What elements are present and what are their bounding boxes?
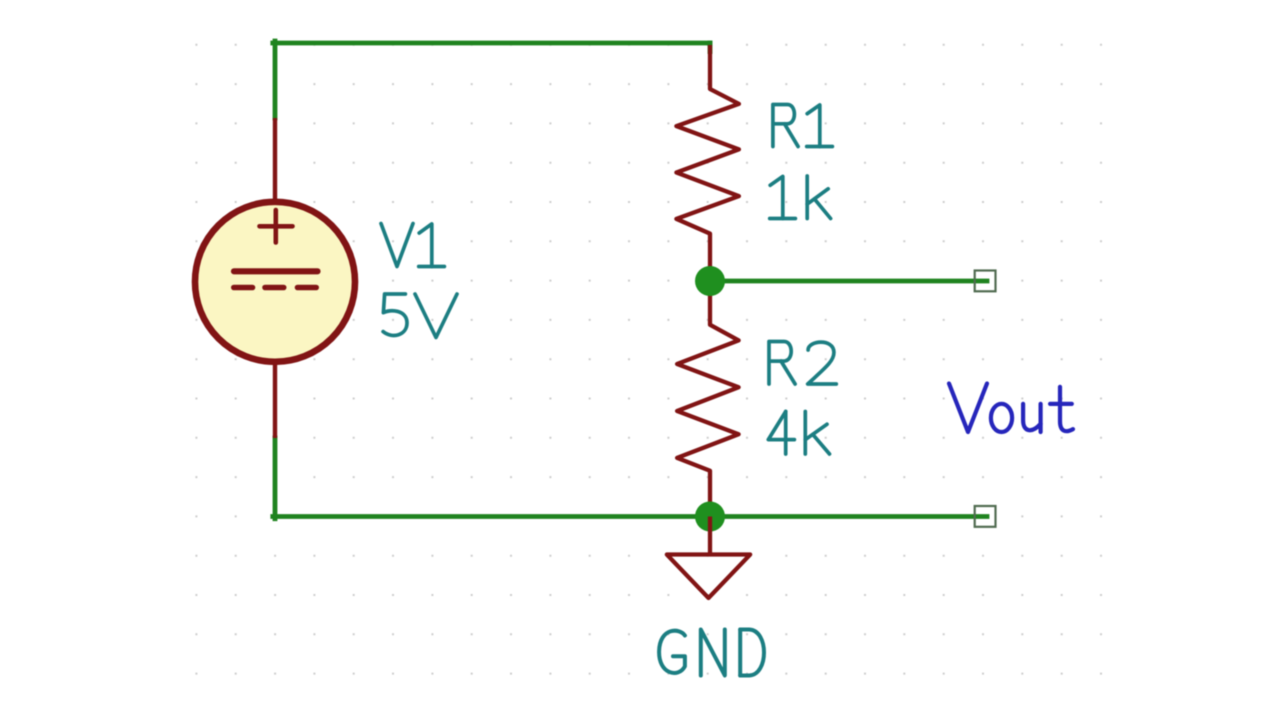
resistor R2 [677,281,739,517]
unconnected wire end square (ground rail) [975,506,996,527]
ground label GND [659,630,764,676]
value label 1k [770,176,831,219]
reference label R1 [773,105,833,147]
net label Vout [949,384,1073,433]
wire upper left vertical to V1 positive pin [273,41,278,118]
wire bottom horizontal to GND node [273,514,710,519]
unconnected wire end square (Vout node) [975,271,996,292]
reference label V1 [381,224,444,267]
wire bottom from GND node to output pin [710,514,987,519]
junction node between R1 and R2 (divider output) [695,266,725,296]
value label 4k [768,412,829,455]
ground symbol [667,517,750,599]
reference label R2 [769,342,836,385]
wire top horizontal from V1 to R1 [273,43,710,52]
wire middle from divider node to output pin [710,279,987,284]
resistor R1 [676,45,739,281]
wire lower left vertical from V1 negative pin [273,438,278,519]
value label 5V [383,294,457,338]
junction node on ground rail [695,502,725,532]
voltage source V1 [195,118,355,438]
